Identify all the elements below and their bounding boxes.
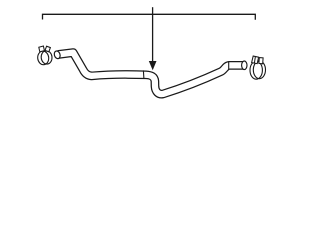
clamp right tab A fold line (254, 57, 255, 64)
clamp right ring A (250, 61, 262, 79)
hose cuff line mid (142, 70, 145, 79)
hose right open end (242, 61, 247, 70)
clamp right tab B (259, 58, 263, 64)
clamp left tab A (39, 46, 45, 52)
hose outer outline (58, 53, 244, 95)
hose inner white body (58, 53, 244, 95)
clamp left ring B (41, 50, 53, 64)
clamp left ring A (37, 51, 49, 66)
hose left open end (53, 50, 61, 59)
dimension bracket (43, 14, 256, 19)
clamp right tab A (252, 56, 259, 64)
hose cuff line right (228, 61, 230, 69)
clamp left tab B (45, 46, 50, 52)
leader line (152, 7, 154, 62)
arrowhead (149, 61, 157, 70)
clamp right ring B (253, 61, 265, 79)
